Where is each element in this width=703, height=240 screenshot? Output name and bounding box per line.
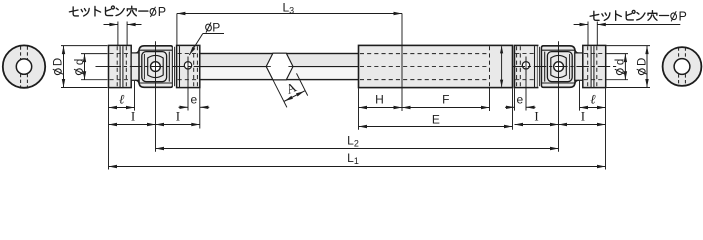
left joint: shaft collar (hub) [109,45,132,87]
dimension I (left inner) [156,124,200,126]
tube hex bore hidden lines [360,53,490,55]
label セットピン穴ーφP (right) [590,14,599,16]
svg-text:I: I [131,109,135,124]
svg-text:d: d [615,59,627,65]
extension line: tube left end [358,88,360,130]
left joint neck [131,53,139,80]
end view ring (right) [663,47,702,86]
svg-text:E: E [432,113,440,127]
extension line: ℓ right (left side) [134,81,136,111]
hex shaft (exposed) [200,54,359,67]
set-pin hole pointer arrows (right) [587,22,589,46]
svg-text:H: H [375,93,384,107]
dimension e (left) [179,106,189,108]
extension line: tube right end [512,88,514,130]
hex cross-section symbol [266,53,293,80]
dimension L1 [109,166,606,168]
left joint pin [151,62,161,72]
dimension I (right inner) [515,124,559,126]
svg-text:e: e [517,92,524,106]
extension line: shaft start at collar end [199,88,201,128]
right joint pin [554,62,564,72]
dimension H [359,107,403,109]
ring pin-hole hidden lines (right) [678,47,680,59]
left joint yoke body [139,46,173,88]
extension line: right shaft end [605,88,607,169]
dimension ℓ (left) [109,107,135,109]
svg-text:P: P [212,21,220,35]
ring pin-hole hidden lines (left) [20,46,22,59]
svg-text:I: I [581,109,585,124]
left joint vertical centerline / extension [155,41,157,152]
left yoke / collar gap [173,46,177,87]
left second-collar bore hidden lines [178,53,199,55]
label φP with leader (left joint) [205,23,212,31]
right joint: end collar [583,45,606,87]
left collar bore hidden lines [110,53,131,55]
bore end hidden line [489,46,491,87]
extension line: ℓ left (right side) [579,81,581,111]
dimension φD (right) [607,45,651,47]
extension line: right collar start [514,88,516,110]
dimension I (right outer) [559,124,606,126]
centerline over left joint [109,66,200,68]
svg-text:P: P [678,9,686,23]
centerline over right joint [513,66,618,68]
vertical line through right φP hole [525,57,527,76]
centerline (main axis) [96,66,109,68]
end view ring (left, φD/φd) [3,45,45,87]
right joint yoke body [541,46,575,88]
dimension φD (left) [61,45,108,47]
dimension ℓ (right) [580,107,606,109]
svg-text:ℓ: ℓ [119,91,125,106]
dimension I (left outer) [109,124,156,126]
dimension L2 [156,148,559,150]
vertical line through left φP hole [187,57,189,76]
svg-text:D: D [637,58,649,66]
right end-collar bore hidden lines [584,53,605,55]
dimension L3 [176,13,178,45]
φP set-pin hole (left, visible) [187,57,189,111]
left joint spider boss [148,55,164,77]
svg-text:F: F [442,93,449,107]
svg-text:e: e [191,92,198,106]
shaft end line inside tube / extension x=402 [401,13,403,111]
svg-text:P: P [158,5,166,19]
dimension A (across flats) [273,80,287,108]
tube end arrows marker [501,46,503,87]
φP set-pin hole (right, visible) [525,57,527,111]
right collar bore hidden lines [515,53,536,55]
label セットピン穴ーφP (left) [69,10,78,12]
right joint: collar with φP hole [515,45,538,87]
right joint vertical centerline / extension [558,41,560,152]
left joint: second collar (with φP hole) [177,45,200,87]
svg-text:I: I [534,109,538,124]
extension line: left shaft end [108,88,110,169]
extension line: bore end below tube [489,88,491,111]
dimension E [359,126,513,128]
set-pin hole pointer arrows (left) [117,22,119,46]
right joint neck [575,53,583,80]
dimension F [402,107,490,109]
right yoke / collar gap [538,46,542,87]
svg-text:I: I [176,109,180,124]
svg-text:D: D [53,58,65,66]
svg-text:ℓ: ℓ [590,91,596,106]
svg-text:d: d [74,59,86,65]
left collar set-pin hole hidden lines [116,46,118,87]
dimension φd (left) [81,53,108,55]
outer tube (pipe) [359,45,513,87]
right joint spider boss [551,55,567,77]
dimension φd (right) [607,53,629,55]
dimension e (right) [505,106,515,108]
right end-collar set-pin hole hidden lines [587,46,589,87]
